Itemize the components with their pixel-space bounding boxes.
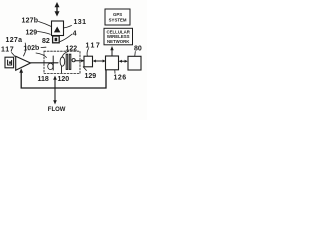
driver box D (82)	[53, 36, 60, 43]
hydrant body box 117	[5, 57, 14, 68]
svg-text:102b: 102b	[23, 45, 39, 53]
controller box 129	[84, 56, 93, 67]
flow double arrow	[53, 76, 57, 105]
svg-text:SYSTEM: SYSTEM	[109, 18, 127, 23]
flow meter assembly	[48, 54, 75, 73]
svg-text:GPS: GPS	[113, 12, 122, 17]
svg-text:131: 131	[74, 19, 87, 26]
return wire 126 to hydrant	[19, 68, 106, 88]
pipe wire to meter	[31, 62, 59, 64]
svg-text:129: 129	[85, 73, 97, 80]
svg-text:127b: 127b	[22, 18, 39, 25]
svg-text:127a: 127a	[6, 37, 23, 44]
svg-text:4: 4	[73, 31, 77, 38]
link wire 126 to 80 box (double arrow)	[119, 60, 128, 63]
antenna double arrow (wireless link above 131)	[55, 2, 60, 17]
GPS system box	[105, 9, 130, 25]
svg-text:126: 126	[114, 74, 127, 81]
label 129 (middle)	[83, 67, 96, 80]
label 126	[114, 70, 127, 81]
label 127a	[6, 37, 26, 56]
dashed enclosure 118/120	[44, 51, 80, 73]
label 131	[64, 19, 86, 28]
label 4	[60, 31, 77, 42]
transmitter box 131	[52, 21, 64, 36]
label 122	[62, 46, 77, 57]
cellular wireless network box	[104, 28, 133, 45]
svg-text:FLOW: FLOW	[48, 107, 66, 113]
box 80	[128, 56, 141, 70]
wire meter to controller 129	[75, 59, 84, 62]
svg-text:129: 129	[26, 29, 38, 36]
link wire 129 to 126 (double arrow)	[93, 60, 106, 63]
svg-text:NETWORK: NETWORK	[107, 39, 130, 44]
svg-text:117: 117	[86, 43, 102, 50]
svg-text:118: 118	[38, 76, 49, 83]
label 127b	[22, 18, 52, 27]
telemetry box 126	[106, 56, 119, 70]
svg-text:117: 117	[1, 47, 14, 54]
label 102b	[23, 45, 46, 58]
label 117 (middle)	[86, 43, 102, 56]
wire 126 up to cellular network	[110, 46, 113, 56]
svg-text:120: 120	[58, 76, 70, 83]
label 129 (top)	[26, 29, 51, 36]
label 80	[134, 46, 142, 56]
svg-text:82: 82	[42, 38, 50, 45]
label 117 (left)	[1, 47, 15, 57]
nozzle triangle	[16, 56, 31, 70]
